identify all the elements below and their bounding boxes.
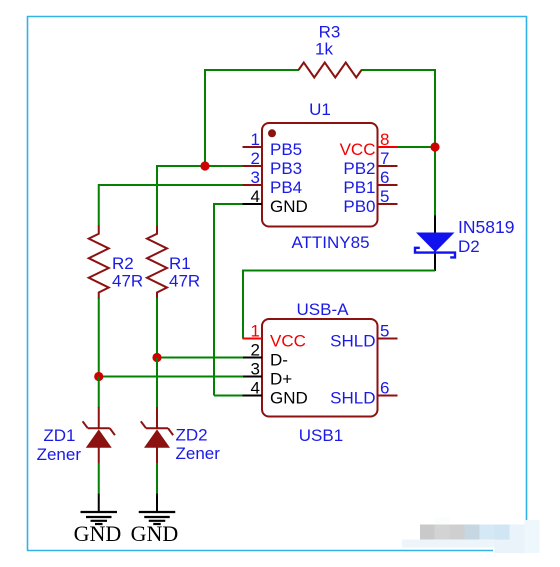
wire pin4 gnd horizontal [214,203,243,205]
svg-text:R1: R1 [169,254,191,273]
svg-text:GND: GND [270,197,308,216]
pin 8 U1 VCC [340,130,398,159]
svg-text:ZD1: ZD1 [43,426,75,445]
pin 4 U1 GND [243,187,308,216]
wire USB pin4 horizontal [214,395,243,397]
svg-text:PB1: PB1 [343,178,375,197]
pin 3 USB1 D+ [243,360,293,389]
svg-text:2: 2 [251,341,260,360]
diode D2 IN5819 [415,216,514,272]
wire pin2 horizontal [157,165,243,167]
svg-text:ZD2: ZD2 [176,426,208,445]
pin 5 U1 PB0 [343,187,397,216]
wire right vertical from R3 to VCC node [434,69,436,216]
svg-text:6: 6 [380,379,389,398]
wire D- horizontal [157,357,243,359]
svg-text:R2: R2 [112,254,134,273]
pin 1 U1 PB5 [243,130,303,159]
wire pin3 horizontal [99,184,243,186]
svg-text:D+: D+ [270,370,292,389]
svg-text:2: 2 [251,149,260,168]
svg-text:4: 4 [251,379,260,398]
svg-text:PB4: PB4 [270,178,302,197]
zener diode ZD1 [37,407,115,464]
svg-text:IN5819: IN5819 [458,217,514,237]
pin 1 USB1 VCC [243,322,306,351]
wire vertical R2 branch upper [98,184,100,226]
svg-text:GND: GND [270,389,308,408]
wire pin8 VCC to node [398,146,436,148]
wire vertical R1 branch upper [156,165,158,226]
pin 6 USB1 SHLD [330,379,397,408]
USB connector USB1 body [262,300,378,445]
resistor R1 [147,226,200,300]
watermark blocks (decorative) [402,517,540,553]
pin 5 USB1 SHLD [330,322,397,351]
wire D+ horizontal [99,376,243,378]
svg-text:GND: GND [74,521,122,546]
pin 6 U1 PB1 [343,168,397,197]
svg-text:8: 8 [380,130,389,149]
svg-text:6: 6 [380,168,389,187]
svg-text:3: 3 [251,360,260,379]
svg-text:ATTINY85: ATTINY85 [291,233,369,252]
svg-text:U1: U1 [309,100,331,119]
svg-text:47R: 47R [112,272,143,291]
svg-text:VCC: VCC [270,332,306,351]
pin 3 U1 PB4 [243,168,303,197]
pin 4 USB1 GND [243,379,308,408]
svg-text:PB5: PB5 [270,140,302,159]
wire left vertical from R3 to pin2 node [204,69,206,166]
svg-text:1k: 1k [315,40,333,59]
wire R3 top-left horizontal [205,69,299,71]
svg-text:47R: 47R [169,272,200,291]
svg-text:PB3: PB3 [270,159,302,178]
pin 2 U1 PB3 [243,149,303,178]
svg-text:5: 5 [380,187,389,206]
wire diode bottom to USB VCC [243,271,435,339]
wire R1 bottom to D- node [156,298,158,358]
svg-text:PB2: PB2 [343,159,375,178]
resistor R2 [89,226,143,300]
svg-text:SHLD: SHLD [330,389,375,408]
ground symbol left [81,512,118,524]
svg-text:PB0: PB0 [343,197,375,216]
node junction VCC [430,142,439,151]
svg-text:D-: D- [270,351,288,370]
node junction D+ [94,372,103,381]
wire node D+ down to ZD1 [98,377,100,408]
wire gnd lead ZD2 [156,494,158,512]
svg-text:GND: GND [131,521,179,546]
svg-text:USB1: USB1 [299,426,343,445]
node junction pin2 [200,161,209,170]
svg-text:5: 5 [380,322,389,341]
svg-text:Zener: Zener [37,445,82,464]
svg-text:D2: D2 [458,237,480,256]
wire gnd lead ZD1 [98,494,100,512]
ground symbol right [139,512,176,524]
wire vertical x214 to USB pin4 [213,203,215,396]
svg-text:SHLD: SHLD [330,332,375,351]
zener diode ZD2 [141,407,220,463]
svg-text:3: 3 [251,168,260,187]
IC U1 [262,100,378,252]
wire ZD1 to gnd [98,463,100,494]
pin 2 USB1 D- [243,341,288,370]
resistor R3 [299,23,362,78]
wire R2 bottom to D+ node [98,298,100,377]
wire ZD2 to gnd [156,463,158,494]
wire node D- down to ZD2 [156,358,158,408]
wire R3 top-right horizontal [361,69,435,71]
svg-text:USB-A: USB-A [297,300,350,319]
svg-text:1: 1 [251,322,260,341]
pin 7 U1 PB2 [343,149,397,178]
svg-text:VCC: VCC [340,140,376,159]
svg-text:7: 7 [380,149,389,168]
svg-text:Zener: Zener [176,444,221,463]
node junction D- [152,353,161,362]
svg-text:4: 4 [251,187,260,206]
svg-text:1: 1 [251,130,260,149]
